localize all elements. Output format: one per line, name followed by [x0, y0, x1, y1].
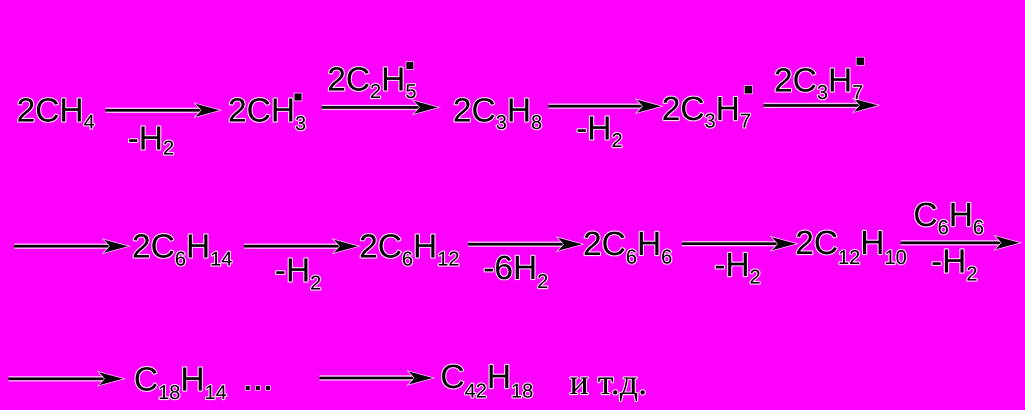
svg-text:и т.д.: и т.д. [570, 362, 648, 402]
svg-text:2CH4: 2CH4 [17, 92, 95, 133]
